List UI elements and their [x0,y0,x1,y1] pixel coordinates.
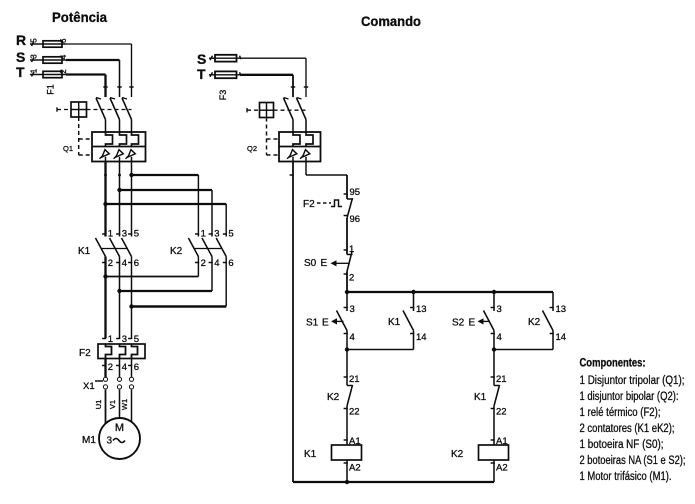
svg-text:E: E [469,318,476,329]
svg-text:E: E [322,318,329,329]
wire X1 to motor V1 [119,390,121,419]
wire K1 pole2 output [119,257,121,339]
svg-text:Q1: Q1 [63,144,73,153]
svg-text:S2: S2 [452,318,465,329]
node bus junction 2 [411,290,415,294]
breaker Q1 pole 2 contact [110,87,122,132]
wire R phase below Q1 [131,162,133,237]
pushbutton S2 NO (3-4) [452,292,502,350]
svg-text:21: 21 [349,374,360,385]
svg-text:2 botoeiras NA (S1 e S2);: 2 botoeiras NA (S1 e S2); [580,455,686,467]
wire S phase drop [119,60,121,97]
wire R phase drop [131,44,133,97]
wire bottom return [293,481,494,483]
svg-text:A2: A2 [496,463,508,474]
breaker Q2 pole 2 contact [297,87,309,132]
contactor K2 linkage [194,248,222,250]
svg-text:Comando: Comando [361,13,421,29]
motor M1 label [82,435,96,446]
contactor K1 label [78,246,91,257]
fuse F3 pole T [209,71,293,78]
svg-text:4: 4 [214,258,219,269]
svg-text:E: E [321,258,328,269]
wire K2 pole2 to V [120,257,213,292]
coil K2 (A1-A2) [451,436,509,482]
svg-text:4: 4 [59,54,68,59]
label W1 [120,399,129,410]
wire S1/K1 parallel link [347,349,414,351]
node S1 branch junction [345,347,349,351]
svg-text:M: M [115,422,124,434]
label Q1 [63,144,73,153]
svg-text:1: 1 [30,68,39,73]
svg-text:K1: K1 [388,317,401,328]
svg-text:K1: K1 [304,449,317,460]
title Potencia [52,9,107,25]
node R branch junction [104,173,134,177]
svg-text:F1: F1 [46,84,56,95]
coil K1 (A1-A2) [304,436,362,482]
svg-text:14: 14 [556,332,567,343]
svg-text:1: 1 [201,229,206,240]
svg-text:X1: X1 [83,381,95,392]
wire S phase to K2 pole2 [120,190,213,237]
wire X1 to motor W1 [131,390,133,423]
contactor K2 pole 1 (1-2) [188,229,205,270]
wire T phase to K2 pole3 [106,204,227,237]
wire T phase below Q1 [104,162,106,237]
thermal relay F2 trip contact (95-96) [303,187,360,255]
command node T label [197,66,206,82]
svg-text:5: 5 [134,229,139,240]
wire command bus [347,291,553,293]
svg-text:R: R [16,32,26,48]
wire left rail [290,162,294,483]
svg-text:4: 4 [350,332,355,343]
fuse F1 pole R (terminals 5-6) [30,38,132,47]
contactor K1 linkage [101,248,128,250]
title Comando [361,13,421,29]
svg-text:3: 3 [30,54,39,59]
svg-text:6: 6 [134,258,139,269]
breaker Q1 pole 3 contact [122,87,134,132]
svg-text:W1: W1 [120,399,129,410]
contactor K2 power label [170,246,183,257]
breaker Q1 pole 1 contact [96,87,108,132]
breaker Q1 trip cross-box [57,102,132,117]
svg-text:3: 3 [122,229,127,240]
svg-text:S: S [197,51,206,67]
breaker Q2 trip cross-box [247,103,306,118]
component list text [580,358,686,484]
svg-text:K2: K2 [327,392,340,403]
command node S label [197,51,206,67]
contactor K2 pole 2 (3-4) [202,229,219,270]
svg-text:S: S [16,49,25,65]
fuse F1 pole T (terminals 1-2) [30,68,106,77]
svg-text:13: 13 [416,304,427,315]
node T label [16,64,25,80]
svg-text:K2: K2 [528,317,541,328]
svg-text:1 Disjuntor tripolar (Q1);: 1 Disjuntor tripolar (Q1); [580,375,685,387]
wire Q2 output to F2 contact [306,162,347,200]
wire K1 pole1 output [104,257,106,339]
svg-text:13: 13 [556,304,567,315]
svg-text:96: 96 [350,214,361,225]
svg-text:3: 3 [107,436,113,447]
svg-text:Potência: Potência [52,9,107,25]
svg-text:2: 2 [108,362,113,373]
svg-text:S0: S0 [304,258,317,269]
svg-text:2: 2 [201,258,206,269]
svg-text:M1: M1 [82,435,96,446]
contactor K1 pole 2 (3-4) [110,229,127,270]
node S label [16,49,25,65]
contactor K1 pole 1 (1-2) [96,229,113,270]
svg-text:5: 5 [30,38,39,43]
contact K2 NO aux (13-14) [528,292,566,350]
thermal relay F2 label [79,348,91,359]
label F1 [46,84,56,95]
node bus junction 3 [492,290,496,294]
wire S phase below Q1 [119,162,121,237]
svg-text:1 disjuntor bipolar (Q2):: 1 disjuntor bipolar (Q2): [580,391,679,403]
svg-text:4: 4 [122,362,127,373]
wire F2 to X1 pole1 [104,359,106,378]
node S2 branch junction [492,347,496,351]
wire S2/K2 parallel link [494,349,553,351]
motor M1 circle [99,418,140,459]
contactor K2 pole 3 (5-6) [216,229,233,270]
node V junction [117,289,121,293]
breaker Q2 pole 1 contact [284,87,296,132]
svg-text:F2: F2 [303,199,315,210]
wire F2 to X1 pole3 [131,359,133,378]
svg-text:F3: F3 [218,90,228,101]
svg-text:14: 14 [416,332,427,343]
breaker Q1 trip linkage dashed [79,117,92,155]
svg-text:1 botoeira NF (S0);: 1 botoeira NF (S0); [580,439,664,451]
svg-text:5: 5 [228,229,233,240]
svg-text:A2: A2 [349,463,361,474]
fuse F3 pole S [209,55,306,62]
svg-text:T: T [197,66,206,82]
contact K1 NO aux (13-14) [388,292,427,350]
svg-text:21: 21 [496,374,507,385]
node coil K1 bottom junction [345,480,349,484]
svg-text:4: 4 [497,332,502,343]
svg-text:S1: S1 [306,318,319,329]
breaker Q1 thermal-magnetic unit box [92,132,146,162]
breaker Q2 trip linkage dashed [267,118,280,156]
label Q2 [247,144,257,153]
svg-text:F2: F2 [79,348,91,359]
terminal block X1 label [83,381,95,392]
svg-text:K2: K2 [451,449,464,460]
pushbutton S0 NC (1-2) [304,244,354,292]
node T branch junction [103,202,107,206]
fuse F1 pole S (terminals 3-4) [30,54,120,63]
wire T drop to Q2 [292,75,294,97]
svg-text:22: 22 [349,407,360,418]
wire R phase to K2 pole1 [132,175,199,237]
svg-text:T: T [16,64,25,80]
wire X1 to motor U1 [105,390,107,424]
svg-text:2: 2 [108,258,113,269]
svg-text:3: 3 [350,304,355,315]
wire T phase drop [104,75,106,98]
contact K1 NC interlock (21-22) [474,350,507,446]
svg-text:Componentes:: Componentes: [580,358,646,370]
label U1 [94,400,103,410]
svg-text:K2: K2 [170,246,183,257]
breaker Q2 thermal-magnetic unit box [279,132,321,162]
svg-text:1 Motor trifásico (M1).: 1 Motor trifásico (M1). [580,471,672,483]
wire K2 pole1 to U [106,257,199,277]
svg-text:2: 2 [349,273,354,284]
svg-text:6: 6 [228,258,233,269]
svg-text:2: 2 [59,69,68,74]
wire S drop to Q2 [305,58,307,97]
node R label [16,32,26,48]
svg-text:Q2: Q2 [247,144,257,153]
svg-text:1: 1 [108,229,113,240]
label V1 [108,400,117,409]
svg-text:22: 22 [496,407,507,418]
svg-text:4: 4 [122,258,127,269]
thermal relay F2 element box (1-3-5 / 2-4-6) [98,334,145,373]
svg-text:U1: U1 [94,400,103,410]
node U junction [103,274,107,278]
svg-text:6: 6 [134,362,139,373]
wire K2 pole3 to W [132,257,227,307]
wire F2 to X1 pole2 [119,359,121,378]
svg-text:95: 95 [350,187,361,198]
svg-text:6: 6 [59,38,68,43]
svg-text:K1: K1 [78,246,91,257]
node bus junction 1 [345,290,349,294]
node W junction [129,304,133,308]
wire K1 pole3 output [131,257,133,339]
pushbutton S1 NO (3-4) [306,292,355,350]
node S branch junction [117,188,121,192]
svg-text:3: 3 [497,304,502,315]
svg-text:2 contatores (K1 eK2);: 2 contatores (K1 eK2); [580,423,675,435]
svg-text:1 relé térmico (F2);: 1 relé térmico (F2); [580,407,661,419]
label F3 [218,90,228,101]
contactor K1 pole 3 (5-6) [122,229,139,270]
svg-text:V1: V1 [108,400,117,409]
contact K2 NC interlock (21-22) [327,350,360,446]
svg-text:K1: K1 [474,392,487,403]
terminal block X1 terminals [95,377,134,389]
